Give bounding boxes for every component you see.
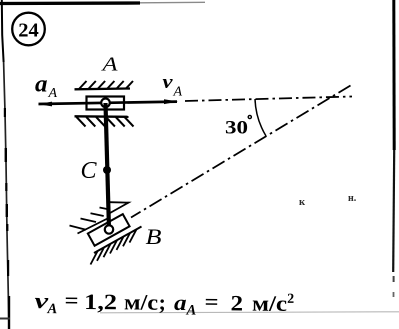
pin at B <box>105 225 113 233</box>
frame right border <box>393 0 395 297</box>
svg-text:a: a <box>174 290 187 315</box>
svg-text:2: 2 <box>230 290 243 315</box>
svg-text:;: ; <box>158 290 166 315</box>
inclined dash-dot construction line through B <box>131 86 351 218</box>
upper-left guide surface at B <box>70 208 110 234</box>
svg-text:м/с: м/с <box>124 289 158 314</box>
svg-text:A: A <box>185 302 196 318</box>
svg-text:2: 2 <box>287 292 294 307</box>
upper guide surface at A <box>75 81 134 89</box>
pin at A <box>101 99 110 108</box>
label v_A <box>163 72 183 100</box>
slider block A <box>87 97 125 110</box>
svg-text:A: A <box>48 86 58 101</box>
svg-text:30: 30 <box>225 118 248 139</box>
label 30deg <box>225 115 251 138</box>
svg-text:v: v <box>34 288 48 313</box>
slider block B (rotated in inclined guides) <box>88 214 130 246</box>
svg-text:=: = <box>204 289 218 314</box>
svg-text:=: = <box>64 288 78 313</box>
svg-text:н.: н. <box>348 193 357 204</box>
point C <box>103 166 111 174</box>
svg-text:к: к <box>299 197 306 208</box>
arrowhead v_A (right) <box>164 99 178 104</box>
frame bottom border (faint) <box>0 312 399 319</box>
lower guide surface at A <box>75 116 134 126</box>
svg-text:24: 24 <box>18 20 39 42</box>
lower guide surface at B <box>91 227 142 265</box>
horizontal line through A (velocity/acceleration axis) <box>39 102 178 104</box>
svg-text:м/с: м/с <box>252 291 287 316</box>
svg-text:B: B <box>146 224 162 249</box>
given values formula <box>34 287 294 319</box>
svg-text:A: A <box>173 85 183 100</box>
arrowhead a_A (left) <box>38 102 52 107</box>
svg-text:A: A <box>46 301 57 317</box>
svg-text:1,2: 1,2 <box>84 289 117 314</box>
frame top border <box>0 2 205 3</box>
hatching wedge right of rod at B <box>110 202 129 213</box>
label a_A <box>35 72 58 102</box>
svg-text:C: C <box>81 158 98 184</box>
problem number badge 24 <box>12 13 45 46</box>
svg-text:a: a <box>35 72 48 98</box>
frame left border <box>2 0 10 329</box>
svg-text:v: v <box>163 72 174 93</box>
rod A-C-B <box>106 103 110 230</box>
30 degree angle arc <box>255 99 266 136</box>
svg-text:A: A <box>100 55 118 76</box>
horizontal dash-dot construction line <box>185 97 352 102</box>
